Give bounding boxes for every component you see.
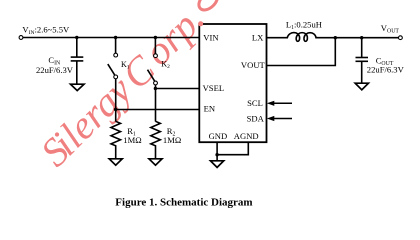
node Cout junction	[360, 36, 363, 39]
svg-text:GND: GND	[209, 131, 228, 141]
resistor R1	[111, 121, 121, 158]
ground (R1)	[109, 159, 122, 165]
svg-text:SCL: SCL	[247, 98, 263, 108]
svg-text:22uF/6.3V: 22uF/6.3V	[36, 65, 74, 75]
node Cin junction	[75, 36, 78, 39]
ground (GND/AGND)	[211, 161, 224, 168]
watermark period dot over box corner	[198, 21, 203, 26]
svg-text:1MΩ: 1MΩ	[163, 135, 181, 145]
svg-text:VIN: VIN	[203, 33, 219, 43]
wire AGND pin	[217, 142, 248, 155]
switch K2	[148, 38, 158, 122]
inductor L1	[287, 33, 317, 42]
svg-text:SDA: SDA	[247, 113, 265, 123]
node K2 junction	[154, 36, 157, 39]
wire VSEL	[155, 88, 199, 90]
node K1 junction	[114, 36, 117, 39]
svg-text:VSEL: VSEL	[203, 83, 224, 93]
svg-text:EN: EN	[204, 104, 216, 114]
svg-text:LX: LX	[252, 33, 264, 43]
watermark	[32, 0, 215, 176]
capacitor COUT	[356, 38, 369, 83]
svg-text:VOUT: VOUT	[381, 23, 400, 35]
wire EN	[116, 109, 200, 111]
svg-text:VIN:2.6~5.5V: VIN:2.6~5.5V	[22, 24, 70, 36]
arrow SDA	[267, 116, 292, 121]
wire VOUT feedback	[267, 38, 336, 66]
op IC U1 body	[199, 24, 266, 142]
ground (R2)	[149, 159, 162, 165]
wire LX to inductor	[267, 37, 289, 39]
svg-text:1MΩ: 1MΩ	[123, 135, 141, 145]
resistor R2	[151, 121, 161, 158]
node GND junction	[215, 153, 218, 156]
ground (Cout)	[355, 83, 368, 90]
svg-text:22uF/6.3V: 22uF/6.3V	[367, 65, 405, 75]
svg-text:Figure 1. Schematic Diagram: Figure 1. Schematic Diagram	[115, 196, 252, 208]
wire GND pin	[216, 142, 218, 160]
node EN junction	[114, 108, 117, 111]
node VSEL junction	[154, 87, 157, 90]
switch K1	[108, 38, 118, 122]
wire inductor to output terminal	[316, 37, 399, 39]
wire input rail	[23, 37, 199, 39]
svg-text:AGND: AGND	[234, 131, 259, 141]
arrow SCL	[267, 101, 292, 106]
capacitor CIN	[71, 38, 84, 85]
node feedback junction	[334, 36, 337, 39]
output terminal Vout	[399, 36, 403, 40]
input terminal Vin	[19, 36, 23, 40]
svg-text:L1:0.25uH: L1:0.25uH	[286, 19, 322, 31]
svg-text:VOUT: VOUT	[241, 60, 266, 70]
ground (Cin)	[71, 84, 85, 90]
